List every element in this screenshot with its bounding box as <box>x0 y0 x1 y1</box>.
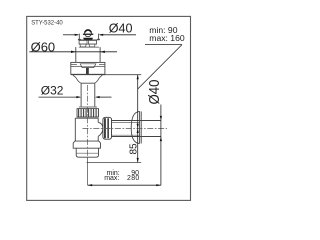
trap body left wall <box>74 118 76 141</box>
min/max 160 underline <box>145 44 182 46</box>
arrow up at centerline <box>137 128 139 133</box>
cup inner line <box>77 152 99 154</box>
arrow down at cup line <box>137 158 139 163</box>
bottom dim left arrow <box>88 184 93 186</box>
flange dish <box>76 78 99 84</box>
tailpipe left wall <box>80 83 82 106</box>
outlet nut <box>103 117 112 139</box>
centerline vertical <box>87 85 89 157</box>
tailpipe right wall <box>94 83 96 106</box>
arrow down at centerline <box>137 124 139 129</box>
cup rim line <box>79 46 99 48</box>
outlet branch arc <box>98 122 103 136</box>
svg-text:STY-532-40: STY-532-40 <box>31 19 63 26</box>
svg-text:85: 85 <box>128 143 139 155</box>
dimension Ø60: line <box>29 51 117 53</box>
lower band sides <box>73 75 103 78</box>
plug knob <box>85 30 92 37</box>
border frame <box>27 16 191 200</box>
centerline extension to dimension <box>87 157 89 185</box>
vertical dimension line (min/max160 and 85) <box>137 75 139 163</box>
strainer base line <box>78 39 100 41</box>
flange inner line <box>71 66 105 68</box>
dimension Ø40 top: left leader <box>63 34 79 36</box>
upper cup left wall <box>78 34 81 40</box>
cup bottom reference line <box>87 162 142 164</box>
plug seal <box>83 38 93 40</box>
seal trapezoid <box>80 64 96 68</box>
trap top nut <box>77 109 99 117</box>
svg-text:Ø32: Ø32 <box>41 84 64 98</box>
arrow up to pipe bottom <box>160 137 162 142</box>
trap cup <box>76 148 98 157</box>
strainer foot right <box>89 44 95 47</box>
bottom dim right arrow <box>156 184 161 186</box>
dimension Ø32: right leader <box>96 96 111 98</box>
flange bottom thick line <box>71 74 105 76</box>
arrow down to pipe top <box>160 116 162 121</box>
inner tube lines <box>112 123 140 136</box>
seal inner line <box>81 65 94 67</box>
outlet tube bottom <box>112 136 161 138</box>
svg-text:Ø40: Ø40 <box>109 21 133 35</box>
svg-text:Ø40: Ø40 <box>146 79 163 104</box>
outlet tube top <box>112 120 161 122</box>
sink underside reference line <box>104 74 142 76</box>
dimension Ø40 top: right leader <box>99 34 136 36</box>
strainer foot left <box>80 44 86 47</box>
lower cup left wall <box>75 47 77 62</box>
body top line <box>75 117 98 119</box>
svg-text:Ø60: Ø60 <box>31 40 56 55</box>
wall flange <box>131 111 141 143</box>
svg-text:max:: max: <box>104 175 119 182</box>
bottom dimension line <box>88 184 161 186</box>
collar line <box>79 106 97 108</box>
dimension Ø60: arrows <box>71 51 76 53</box>
flange lip steps <box>71 63 105 65</box>
flange outline <box>71 62 105 74</box>
upper cup right wall <box>97 34 100 40</box>
screw stem <box>86 67 89 74</box>
svg-text:280: 280 <box>127 175 140 182</box>
diagonal leader to min/max 160 <box>138 45 182 89</box>
trap ring <box>73 141 100 148</box>
trap body right wall <box>97 118 99 141</box>
centerline horizontal <box>83 127 168 129</box>
dimension Ø32: leader <box>39 96 81 98</box>
arrow up at sink line <box>137 75 139 80</box>
svg-text:max: 160: max: 160 <box>149 33 185 43</box>
plug lip bar <box>83 34 93 35</box>
outlet nut shading <box>104 118 106 138</box>
lower cup right wall <box>99 47 101 62</box>
Ø40 end dimension line <box>160 105 162 186</box>
strainer box <box>79 40 96 44</box>
strainer box dividers <box>87 40 89 44</box>
